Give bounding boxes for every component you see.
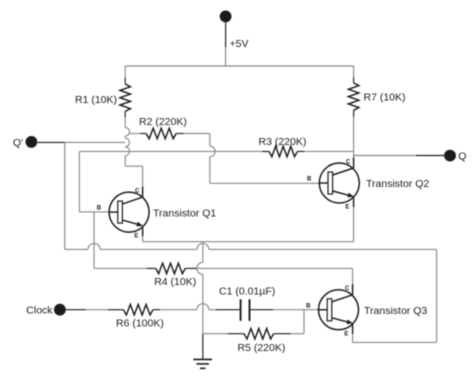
resistor R4 [156, 263, 186, 274]
wire lower rail middle [100, 248, 197, 250]
transistor Q3 [306, 284, 358, 337]
wire R3 right lead [297, 150, 304, 152]
wire R4 left lead [94, 267, 147, 269]
transistor Q2 [307, 158, 359, 211]
wire lower rail right and down to Q3 emitter [209, 249, 437, 342]
wire Q1 base lead [79, 211, 109, 213]
wire R5 left lead [203, 333, 228, 335]
resistor R2 [146, 128, 176, 139]
svg-text:R1 (10K): R1 (10K) [75, 94, 117, 106]
wire Q1 base riser [78, 151, 80, 211]
wire R1 top lead [124, 66, 126, 78]
svg-text:C: C [345, 286, 350, 292]
svg-text:E: E [344, 331, 348, 337]
wire R7 bottom lead [353, 110, 355, 117]
resistor R3 [269, 146, 297, 157]
svg-text:R4 (10K): R4 (10K) [154, 276, 196, 288]
svg-text:R6 (100K): R6 (100K) [116, 317, 164, 329]
resistor R6 [123, 304, 153, 315]
transistor Q1 [97, 187, 149, 240]
capacitor C1 [240, 299, 242, 321]
wire Q-prime line [65, 141, 126, 143]
svg-text:E: E [134, 234, 138, 240]
wire emitter rail [143, 241, 354, 243]
svg-text:B: B [97, 206, 102, 212]
svg-text:B: B [306, 303, 311, 309]
wire R2 left lead [129, 133, 140, 135]
wire Q-prime stub [38, 141, 65, 143]
node Q-prime terminal dot [26, 136, 38, 148]
wire Q1 collector riser hop over base line [125, 147, 129, 156]
wire Clock stub [66, 309, 86, 311]
svg-text:R3 (220K): R3 (220K) [259, 136, 307, 148]
wire ground riser lower [202, 274, 204, 333]
wire R2 right lead [176, 133, 183, 135]
svg-text:Q: Q [458, 150, 466, 162]
wire lower rail hop at base riser [88, 243, 100, 249]
wire R1 bottom lead [124, 111, 126, 117]
wire Q line [354, 155, 416, 157]
svg-text:Transistor Q1: Transistor Q1 [153, 207, 216, 219]
wire ground riser upper [202, 242, 204, 263]
wire ground riser hop over R4 line [197, 262, 203, 274]
wire R2 drop to Q2 base [210, 157, 320, 184]
node Clock terminal dot [54, 304, 66, 316]
wire C1 right lead to Q3 base [273, 309, 319, 311]
wire clock line hop over ground riser [197, 304, 209, 310]
svg-text:R2 (220K): R2 (220K) [139, 116, 187, 128]
resistor R1 [120, 84, 131, 111]
svg-text:Q': Q' [13, 137, 23, 149]
svg-text:Transistor Q3: Transistor Q3 [364, 305, 427, 317]
wire clock line to C1 [209, 309, 216, 311]
wire ground riser to ground [202, 334, 204, 360]
wire R6 right lead [153, 309, 160, 311]
wire R5 right lead up to Q3 base line [274, 333, 291, 335]
resistor R7 [348, 83, 359, 110]
svg-text:C: C [346, 159, 351, 165]
svg-text:B: B [307, 177, 312, 183]
wire Q-prime drop [64, 142, 66, 249]
wire R7 top lead [353, 66, 355, 78]
wire Q3 emitter lead to rail [352, 333, 354, 342]
wire Q1 emitter lead [142, 231, 144, 242]
wire Q1 collector riser segment [124, 136, 126, 138]
power terminal +5V dot [220, 11, 232, 23]
svg-text:R5 (220K): R5 (220K) [238, 342, 286, 354]
wire Q1 collector riser hop at Q-prime line [125, 138, 129, 147]
wire Clock to R6 [86, 309, 108, 311]
wire Q1 base drop [93, 212, 95, 269]
svg-text:C1 (0.01µF): C1 (0.01µF) [219, 286, 275, 298]
wire Q1 base cross line to R3 [79, 150, 262, 152]
wire Q1 collector jog [125, 156, 142, 187]
wire +5V stub [225, 22, 227, 47]
wire lower rail hop at ground riser [197, 243, 209, 249]
ground symbol [193, 359, 212, 368]
wire Q2 emitter lead [353, 207, 355, 242]
svg-text:R7 (10K): R7 (10K) [364, 92, 406, 104]
svg-text:E: E [345, 205, 349, 211]
wire Q stub [416, 155, 444, 157]
node Q terminal dot [444, 150, 456, 162]
wire top +5V rail [125, 65, 353, 67]
svg-text:C: C [135, 188, 140, 194]
wire lower rail left [65, 248, 88, 250]
svg-text:Clock: Clock [26, 305, 53, 317]
svg-text:Transistor Q2: Transistor Q2 [366, 178, 429, 190]
wire Q1 collector riser hop to R2 [125, 127, 129, 136]
wire C1 right lead stub [251, 309, 274, 311]
wire R4 right lead to Q3 collector [185, 267, 197, 269]
resistor R5 [244, 328, 274, 339]
svg-text:+5V: +5V [230, 38, 249, 50]
wire R2 drop hop over base line [210, 146, 215, 157]
